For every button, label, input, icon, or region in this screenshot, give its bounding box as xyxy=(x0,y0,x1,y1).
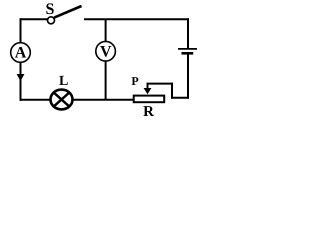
wire: left vertical from ammeter down to bottom corner xyxy=(20,62,22,101)
wire: top segment from left corner to switch pivot xyxy=(20,18,49,20)
svg-text:R: R xyxy=(143,104,154,120)
wire: top segment from switch fixed contact to right corner xyxy=(84,18,189,20)
wire: right vertical from top corner down to battery xyxy=(187,18,189,48)
switch S blade (open) xyxy=(54,6,81,18)
voltmeter V circle xyxy=(96,41,116,61)
svg-text:P: P xyxy=(131,74,138,88)
svg-text:S: S xyxy=(46,1,55,18)
svg-text:A: A xyxy=(15,44,27,61)
rheostat slider arrow head P xyxy=(144,88,152,94)
ammeter A circle xyxy=(11,43,31,63)
lamp X stroke 2 xyxy=(54,93,69,107)
wire: bottom-right horizontal to step xyxy=(171,97,189,99)
battery negative plate (short thick) xyxy=(182,52,194,55)
lamp L (circle with X) xyxy=(51,90,73,110)
wire: left vertical from top wire down to ammeter xyxy=(20,18,22,44)
lamp X stroke 1 xyxy=(54,93,69,107)
battery positive plate (long thin) xyxy=(178,48,197,50)
svg-text:L: L xyxy=(59,74,68,89)
wire: bottom horizontal from ammeter corner through lamp to rheostat xyxy=(20,99,135,101)
rheostat slider arrow shaft xyxy=(147,84,149,89)
switch S pivot circle xyxy=(48,17,55,24)
rheostat R box xyxy=(134,96,165,103)
current direction arrow on left wire xyxy=(17,74,25,81)
wire: step vertical xyxy=(171,83,173,99)
wire: right vertical below battery xyxy=(187,53,189,98)
voltmeter stem wire (top wire down to bottom wire) xyxy=(105,19,107,100)
wire: step horizontal to slider arrow xyxy=(147,83,174,85)
svg-text:V: V xyxy=(100,44,112,61)
